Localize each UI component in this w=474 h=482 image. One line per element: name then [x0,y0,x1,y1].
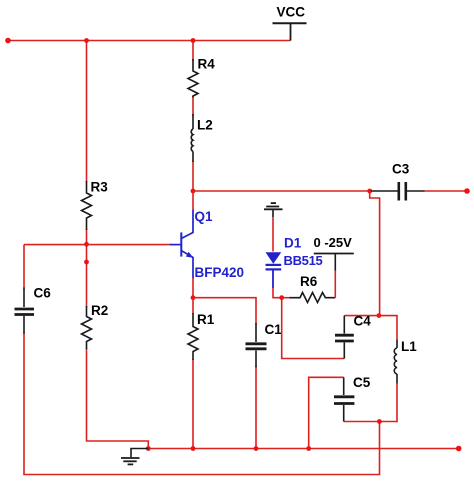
svg-text:L2: L2 [197,118,213,133]
node left endpoint dot top rail [5,38,11,44]
svg-text:0 -25V: 0 -25V [314,235,353,250]
capacitor C3 [371,162,425,201]
node emitter junction dot [191,295,196,300]
transistor Q1 BFP420 [170,209,244,280]
svg-text:C1: C1 [265,322,283,337]
node C3 junction dot [367,189,372,194]
node collector junction dot [191,189,196,194]
resistor R2 [82,303,109,349]
wire collector stub red above transistor [192,191,194,210]
wire ground rail [148,448,458,450]
wire diode node down then right to C4 bottom [282,298,345,359]
wire R4/L2 branch down to collector node [192,41,194,62]
wire R2 bottom dogleg to ground junction [87,348,149,449]
node ground junction dot [146,446,151,451]
inductor L2 [191,114,213,162]
wire C3 right lead to right endpoint [425,190,468,192]
node extra junction dot below [84,260,89,265]
node base wire junction at R3/R2 line [84,242,89,247]
svg-text:Q1: Q1 [195,209,214,224]
wire C5 top left then down to ground rail [309,377,344,448]
svg-text:C6: C6 [34,286,52,301]
ground (top, inverted) above D1 [264,203,283,217]
wire diode node to R6 left [282,297,290,299]
svg-text:R1: R1 [197,312,215,327]
wire L2 to collector node [192,161,194,192]
wire emitter node right and down to C1 [193,298,256,324]
node C5-top ground junction dot [306,446,311,451]
wire base wire from C6 corner to transistor base [24,245,171,289]
node C1 ground junction dot [254,446,259,451]
power VCC terminal [273,5,307,41]
wire C6 bottom along bottom rail up to C5/L1 bottom node [24,332,380,475]
wire top rail from left endpoint to VCC [8,40,291,42]
svg-text:C3: C3 [392,162,410,177]
svg-text:BFP420: BFP420 [195,265,245,280]
node C5 bottom junction dot [377,419,382,424]
resistor R1 [188,312,215,360]
svg-text:VCC: VCC [277,5,306,20]
node top rail junction R4 [191,38,196,43]
terminal 0 -25V bias [314,235,354,271]
wire C4 top to L1 top [344,316,397,340]
wire R1 bottom to ground rail [192,359,194,449]
node right output endpoint dot [464,188,470,194]
resistor R6 [290,274,336,303]
wire C1 bottom to ground rail [255,366,257,448]
svg-text:BB515: BB515 [284,253,323,268]
capacitor C1 [246,322,283,367]
wire L1 bottom to C5 bottom node [344,384,397,422]
ground (bottom) [121,449,148,465]
node top rail junction R3 [84,38,89,43]
node right ground endpoint dot [456,446,462,452]
resistor R4 [188,57,215,98]
wire diode cathode down to node and right [273,288,282,298]
diode D1 BB515 varactor [266,236,323,289]
resistor R3 [82,180,109,231]
inductor L1 [394,339,417,384]
wire R1 branch down to ground rail [192,298,194,314]
svg-text:C4: C4 [354,314,372,329]
wire R6 right up toward bias terminal [334,271,336,298]
capacitor C4 [335,314,371,359]
wire collector node to C3 with jog down right branch [193,191,380,316]
wire R3 bottom through base node to R2 top [86,229,88,307]
svg-text:R4: R4 [198,57,216,72]
svg-text:C5: C5 [353,375,371,390]
node diode/R6 junction dot [279,295,284,300]
capacitor C6 [15,286,52,334]
wire R3/R2 branch: down from top rail, dogleg to ground junction [86,41,88,183]
node R1 ground junction dot [191,446,196,451]
svg-text:R6: R6 [300,274,318,289]
wire ground to diode anode [272,217,274,251]
wire between R4 and L2 [192,96,194,116]
node C4 top wire junction dot [377,313,382,318]
wire emitter stub red below transistor [192,278,194,298]
capacitor C5 [334,375,371,422]
svg-text:R2: R2 [91,303,108,318]
svg-text:D1: D1 [284,236,302,251]
svg-text:R3: R3 [91,180,109,195]
svg-text:L1: L1 [401,339,417,354]
